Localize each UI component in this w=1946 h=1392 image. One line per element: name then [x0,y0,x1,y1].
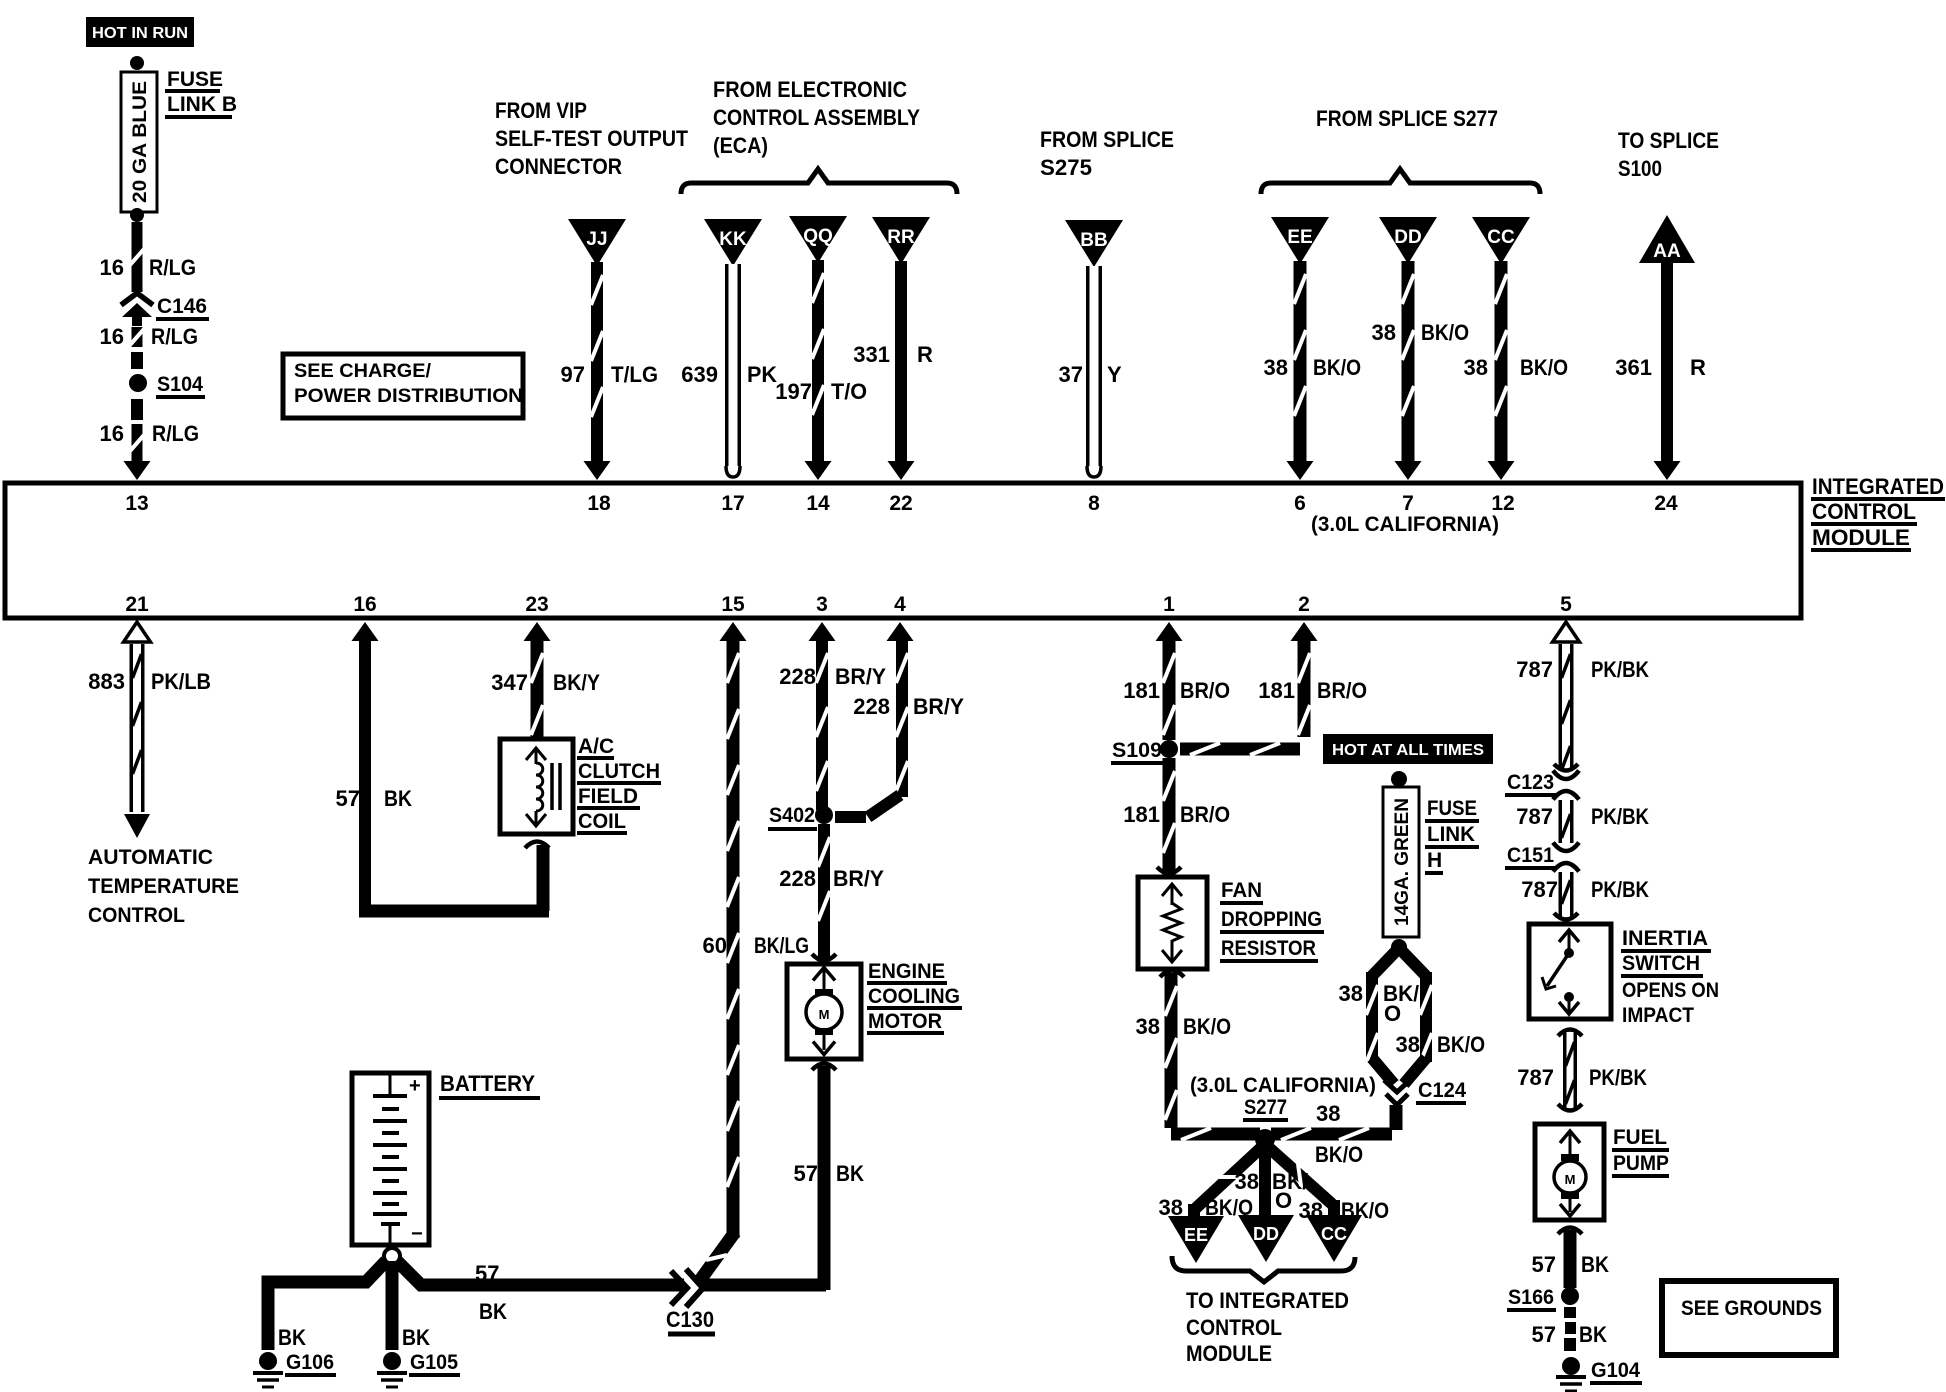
svg-text:(3.0L CALIFORNIA): (3.0L CALIFORNIA) [1311,513,1499,536]
svg-text:CONTROL: CONTROL [1812,499,1916,524]
svg-text:S402: S402 [769,804,815,827]
wire 38 BK/O from resistor to S277 [1160,971,1260,1141]
splice S402 [815,806,833,824]
svg-text:MODULE: MODULE [1812,525,1910,550]
svg-text:PUMP: PUMP [1613,1152,1669,1175]
svg-text:FROM SPLICE S277: FROM SPLICE S277 [1316,106,1498,131]
wire 38 BK/O to connector EE [1194,1146,1263,1218]
svg-text:CC: CC [1487,227,1515,248]
svg-text:CONNECTOR: CONNECTOR [495,154,622,179]
label 38 BK/O [1464,355,1568,380]
module label INTEGRATED CONTROL MODULE [1811,474,1945,550]
wire 16 R/LG upper segment [130,222,144,292]
label ENGINE COOLING MOTOR [867,960,962,1033]
svg-text:ENGINE: ENGINE [868,960,945,983]
pin 18 [587,492,611,515]
wire 181 BR/O from pin 2 [1180,622,1318,755]
label FUEL PUMP [1612,1126,1669,1176]
svg-text:R/LG: R/LG [152,421,199,446]
svg-text:M: M [1565,1172,1576,1187]
label 787 PK/BK [1516,804,1649,829]
engine cooling motor [787,954,861,1059]
svg-text:883: 883 [88,669,125,694]
pin 8 [1088,492,1100,515]
svg-text:38: 38 [1316,1101,1340,1126]
svg-text:RESISTOR: RESISTOR [1221,937,1316,960]
svg-text:C146: C146 [157,295,207,318]
svg-text:787: 787 [1517,1065,1554,1090]
label AUTOMATIC TEMPERATURE CONTROL [88,846,239,927]
label 38 BK/O [1264,355,1361,380]
connector CC from splice S277 [1472,217,1530,264]
svg-text:347: 347 [491,670,528,695]
integrated control module box [5,483,1801,618]
svg-text:R: R [1690,355,1706,380]
label TO SPLICE S100 [1618,128,1719,181]
wire 228 BR/Y from pin 3 [809,622,836,810]
reference box SEE GROUNDS [1662,1281,1836,1355]
svg-text:38: 38 [1136,1014,1160,1039]
label C130 [666,1307,715,1334]
brace over ECA connectors [681,169,957,194]
label S402 [768,804,817,829]
wire 57 BK from pin 16 [352,622,550,911]
svg-text:DD: DD [1394,227,1421,248]
module note (3.0L CALIFORNIA) [1311,513,1499,536]
label 181 BR/O [1123,678,1230,703]
svg-text:BR/Y: BR/Y [913,694,964,719]
svg-text:TO INTEGRATED: TO INTEGRATED [1186,1288,1349,1313]
label 38 BK/ O inside fuse link loop [1339,981,1419,1026]
svg-text:FROM VIP: FROM VIP [495,98,587,123]
connector C123 [1553,771,1579,800]
pin 5 [1560,593,1572,616]
label C151 [1505,844,1557,868]
svg-text:CC: CC [1321,1224,1347,1244]
pin 15 [721,593,745,616]
pin 2 [1298,593,1310,616]
label 16 R/LG [100,421,199,446]
svg-text:3: 3 [816,593,828,616]
svg-text:BK/O: BK/O [1520,355,1568,380]
connector QQ from ECA [789,216,847,263]
svg-text:IMPACT: IMPACT [1622,1004,1694,1027]
svg-text:CONTROL ASSEMBLY: CONTROL ASSEMBLY [713,105,920,130]
wire 361 R solid [1654,258,1681,480]
svg-text:57: 57 [1532,1322,1556,1347]
wire dash [131,352,143,369]
wire 38 BK/O [1287,261,1314,480]
label 38 BK/O [1372,320,1469,345]
svg-text:DD: DD [1253,1224,1279,1244]
wire 38 BK/O [1488,261,1515,480]
label C123 [1505,771,1557,795]
label FUSE LINK H [1425,797,1479,873]
wire 347 BK/Y from pin 23 [524,622,551,737]
wire 639 PK hollow [725,264,741,477]
power tag HOT IN RUN [86,17,194,47]
label BATTERY [439,1071,540,1098]
svg-text:14GA. GREEN: 14GA. GREEN [1392,798,1413,926]
svg-text:BB: BB [1080,230,1107,251]
label C146 [156,295,209,319]
svg-text:S275: S275 [1040,155,1092,180]
label A/C CLUTCH FIELD COIL [577,735,661,833]
svg-text:BR/Y: BR/Y [835,664,886,689]
wire 37 Y hollow [1086,266,1102,477]
svg-text:RR: RR [887,227,915,248]
wire 38 BK/O fuse link left branch [1366,951,1396,1084]
svg-text:38: 38 [1339,981,1363,1006]
svg-text:BK/LG: BK/LG [754,933,809,958]
svg-text:HOT AT ALL TIMES: HOT AT ALL TIMES [1332,742,1484,759]
ground G104 [1556,1357,1586,1391]
wire 197 T/O [805,260,832,480]
pin 7 [1402,492,1414,515]
pin 16 [353,593,376,616]
wire 57 BK dashed to G104 [1564,1307,1576,1351]
svg-text:BK: BK [836,1161,864,1186]
svg-text:PK/BK: PK/BK [1591,877,1649,902]
pin 13 [125,492,148,515]
label FROM ELECTRONIC CONTROL ASSEMBLY (ECA) [713,77,920,158]
svg-text:787: 787 [1521,877,1558,902]
label INERTIA SWITCH OPENS ON IMPACT [1621,927,1719,1027]
wire 787 PK/BK between C123 and C151 [1559,800,1574,843]
svg-text:R/LG: R/LG [149,255,196,280]
connector DD from splice S277 [1379,217,1437,264]
label 228 BR/Y [779,866,884,891]
fan dropping resistor [1138,867,1207,969]
svg-text:BK/O: BK/O [1183,1014,1231,1039]
svg-text:BK: BK [402,1325,430,1350]
label 361 R [1615,355,1706,380]
svg-text:16: 16 [100,421,124,446]
splice S109 [1160,740,1178,758]
label 57 BK [1532,1322,1608,1347]
wire from coil to pin 16 wire [525,842,549,912]
svg-text:G106: G106 [286,1351,334,1374]
svg-text:FAN: FAN [1221,879,1262,902]
A/C clutch field coil [500,739,573,834]
wire dash [131,399,143,420]
brace over S277 connectors [1261,169,1540,194]
pin 1 [1163,593,1175,616]
connector KK from ECA [704,219,762,266]
svg-text:57: 57 [475,1261,499,1286]
svg-text:O: O [1384,1001,1401,1026]
label 181 BR/O [1258,678,1367,703]
wire 16 R/LG lower segment with arrow into pin 13 [124,424,151,480]
svg-text:BR/O: BR/O [1317,678,1367,703]
svg-text:COOLING: COOLING [868,985,960,1008]
svg-text:787: 787 [1516,657,1553,682]
svg-text:HOT IN RUN: HOT IN RUN [92,25,188,42]
label FAN DROPPING RESISTOR [1220,879,1324,961]
svg-text:60: 60 [703,933,727,958]
connector C124 [1384,1080,1410,1105]
ground G106 [253,1352,283,1387]
connector JJ from VIP self-test [568,219,626,266]
svg-text:C123: C123 [1507,771,1554,794]
svg-text:6: 6 [1294,492,1306,515]
label 181 BR/O [1123,802,1230,827]
svg-text:57: 57 [336,786,360,811]
connector RR from ECA [872,217,930,264]
svg-text:12: 12 [1491,492,1514,515]
brace under EE DD CC [1172,1256,1355,1282]
inertia switch [1529,924,1611,1019]
splice S166 [1561,1287,1579,1305]
svg-text:FUSE: FUSE [1427,797,1477,820]
battery negative node [384,1248,400,1264]
svg-text:38: 38 [1372,320,1396,345]
svg-text:228: 228 [779,866,816,891]
svg-text:C130: C130 [666,1307,714,1332]
svg-text:BK/O: BK/O [1315,1142,1363,1167]
label S109 [1111,739,1164,763]
label (3.0L CALIFORNIA) [1190,1074,1376,1097]
svg-text:BATTERY: BATTERY [440,1071,535,1096]
fuse link H body 14GA. GREEN [1383,787,1419,937]
label 38 BK/O [1315,1101,1363,1167]
svg-text:BK: BK [1579,1322,1607,1347]
label FROM SPLICE S277 [1316,106,1498,131]
wire 57 BK battery to C130 [397,1261,684,1285]
svg-text:24: 24 [1654,492,1678,515]
pin 23 [525,593,548,616]
label 97 T/LG [561,362,658,387]
label 787 PK/BK [1516,657,1649,682]
label S277 [1243,1096,1288,1120]
svg-text:BK: BK [1581,1252,1609,1277]
connector EE to integrated control module [1168,1216,1224,1263]
connector DD to integrated control module [1238,1215,1294,1262]
svg-text:INERTIA: INERTIA [1622,927,1708,950]
power tag HOT AT ALL TIMES [1323,734,1493,764]
fuse link B body 20 GA BLUE [121,72,157,212]
label 197 T/O [775,379,867,404]
svg-text:M: M [819,1007,830,1022]
svg-text:16: 16 [100,255,124,280]
svg-text:228: 228 [779,664,816,689]
svg-text:21: 21 [125,593,149,616]
wire 883 PK/LB hollow to ATC [124,622,151,838]
svg-text:(ECA): (ECA) [713,133,768,158]
svg-text:PK: PK [747,362,777,387]
svg-text:S100: S100 [1618,156,1662,181]
label G104 [1590,1359,1642,1383]
svg-text:57: 57 [794,1161,818,1186]
svg-text:8: 8 [1088,492,1100,515]
wire 38 BK/ O to connector DD [1259,1148,1271,1218]
svg-text:FUEL: FUEL [1613,1126,1667,1149]
svg-text:LINK: LINK [1427,823,1475,846]
svg-text:1: 1 [1163,593,1175,616]
svg-text:POWER DISTRIBUTION: POWER DISTRIBUTION [294,386,523,407]
svg-text:QQ: QQ [803,226,833,247]
svg-text:Y: Y [1107,362,1122,387]
svg-text:R/LG: R/LG [151,324,198,349]
label FUSE LINK B [165,68,237,117]
wire 60 BK/LG from pin 15 [698,622,747,1283]
wire 38 BK/O fuse link right branch [1402,951,1432,1084]
svg-text:361: 361 [1615,355,1652,380]
splice S104 [129,374,147,392]
label C124 [1416,1079,1466,1103]
svg-text:(3.0L CALIFORNIA): (3.0L CALIFORNIA) [1190,1074,1376,1097]
wire 228 BR/Y from pin 4 [835,622,914,817]
label G106 [285,1351,336,1375]
pin 17 [721,492,744,515]
fuel pump [1535,1124,1604,1220]
pin 22 [889,492,912,515]
label 57 BK [475,1261,507,1324]
wire 181 BR/O from pin 1 [1156,622,1183,740]
svg-text:DROPPING: DROPPING [1221,908,1322,931]
label 57 BK [336,786,413,811]
wire 787 PK/BK from pin 5 [1553,622,1580,771]
svg-text:SELF-TEST OUTPUT: SELF-TEST OUTPUT [495,126,688,151]
reference box SEE CHARGE/POWER DISTRIBUTION [283,354,523,418]
pin 21 [125,593,149,616]
svg-text:38: 38 [1396,1032,1420,1057]
svg-text:181: 181 [1123,678,1160,703]
label 38 BK/O right of loop [1396,1032,1485,1057]
svg-text:15: 15 [721,593,745,616]
label 331 R [853,342,933,367]
wire 57 BK below fuel pump [1558,1228,1582,1289]
node at fuse link H bottom [1391,939,1407,955]
pin 24 [1654,492,1678,515]
svg-text:37: 37 [1059,362,1083,387]
node at fuse link B bottom [130,208,144,222]
pin 4 [894,593,906,616]
wire BK to G105 [386,1261,399,1350]
wire 16 R/LG middle segment [130,327,144,347]
svg-text:18: 18 [587,492,611,515]
wire 181 BR/O from S109 to resistor [1163,758,1175,875]
connector C151 [1553,843,1579,872]
svg-text:97: 97 [561,362,585,387]
svg-text:T/O: T/O [831,379,867,404]
svg-text:23: 23 [525,593,548,616]
label FROM SPLICE S275 [1040,127,1174,180]
svg-text:181: 181 [1258,678,1295,703]
splice S277 [1255,1129,1275,1149]
svg-text:EE: EE [1287,227,1312,248]
label 787 PK/BK [1521,877,1649,902]
label 228 BR/Y [853,694,964,719]
svg-text:PK/BK: PK/BK [1589,1065,1647,1090]
svg-text:PK/BK: PK/BK [1591,657,1649,682]
svg-text:BK: BK [278,1325,306,1350]
connector EE from splice S277 [1271,217,1329,264]
wire BK to G106 [268,1261,386,1350]
label S104 [156,373,205,397]
svg-text:OPENS ON: OPENS ON [1622,979,1719,1002]
svg-text:SWITCH: SWITCH [1622,952,1700,975]
svg-text:17: 17 [721,492,744,515]
svg-text:FROM SPLICE: FROM SPLICE [1040,127,1174,152]
svg-text:331: 331 [853,342,890,367]
svg-text:20 GA BLUE: 20 GA BLUE [130,81,151,203]
svg-text:5: 5 [1560,593,1572,616]
svg-text:CONTROL: CONTROL [88,904,185,927]
svg-text:SEE CHARGE/: SEE CHARGE/ [294,361,432,382]
label 883 PK/LB [88,669,211,694]
wire 331 R solid [888,261,915,480]
connector C130 [671,1269,826,1307]
svg-text:16: 16 [100,324,124,349]
label 57 BK [794,1161,865,1186]
connector AA to splice S100 [1639,215,1695,263]
svg-text:197: 197 [775,379,812,404]
svg-text:PK/BK: PK/BK [1591,804,1649,829]
svg-text:S104: S104 [157,373,203,396]
svg-text:PK/LB: PK/LB [151,669,211,694]
svg-text:FUSE: FUSE [167,68,223,91]
svg-text:38: 38 [1464,355,1488,380]
svg-text:CLUTCH: CLUTCH [578,760,660,783]
svg-text:+: + [409,1075,421,1097]
connector C146 [121,293,153,326]
svg-text:BK/Y: BK/Y [553,670,600,695]
svg-text:639: 639 [681,362,718,387]
svg-text:KK: KK [719,229,747,250]
pin 12 [1491,492,1514,515]
svg-text:AUTOMATIC: AUTOMATIC [88,846,213,869]
svg-text:7: 7 [1402,492,1414,515]
label FROM VIP SELF-TEST OUTPUT CONNECTOR [495,98,688,179]
node at fuse link H top [1391,771,1407,787]
svg-text:CONTROL: CONTROL [1186,1315,1282,1340]
connector CC to integrated control module [1306,1215,1362,1262]
node at fuse link B top [130,56,144,70]
wire 97 T/LG [584,262,611,480]
svg-text:S109: S109 [1112,739,1162,762]
label 57 BK [1532,1252,1610,1277]
svg-text:C151: C151 [1507,844,1554,867]
svg-text:S166: S166 [1508,1286,1554,1309]
svg-text:TEMPERATURE: TEMPERATURE [88,875,239,898]
svg-text:MODULE: MODULE [1186,1341,1272,1366]
svg-text:22: 22 [889,492,912,515]
svg-text:BR/O: BR/O [1180,802,1230,827]
svg-text:BK/O: BK/O [1421,320,1469,345]
label S166 [1507,1286,1556,1310]
label 38 BK/O [1136,1014,1231,1039]
svg-text:BR/Y: BR/Y [833,866,884,891]
svg-text:BR/O: BR/O [1180,678,1230,703]
label 16 R/LG [100,255,196,280]
svg-text:G105: G105 [410,1351,458,1374]
svg-text:O: O [1275,1188,1292,1213]
pin 14 [806,492,830,515]
wire 228 BR/Y to cooling motor [818,824,830,962]
label 639 PK [681,362,777,387]
wire 787 PK/BK from inertia switch to fuel pump [1558,1030,1582,1111]
label 787 PK/BK [1517,1065,1647,1090]
svg-text:MOTOR: MOTOR [868,1010,942,1033]
wire 38 BK/O from C124 to S277 [1271,1105,1396,1140]
svg-text:BK/O: BK/O [1313,355,1361,380]
pin 6 [1294,492,1306,515]
svg-text:4: 4 [894,593,906,616]
svg-text:FIELD: FIELD [578,785,638,808]
svg-text:181: 181 [1123,802,1160,827]
connector BB from splice S275 [1065,220,1123,267]
